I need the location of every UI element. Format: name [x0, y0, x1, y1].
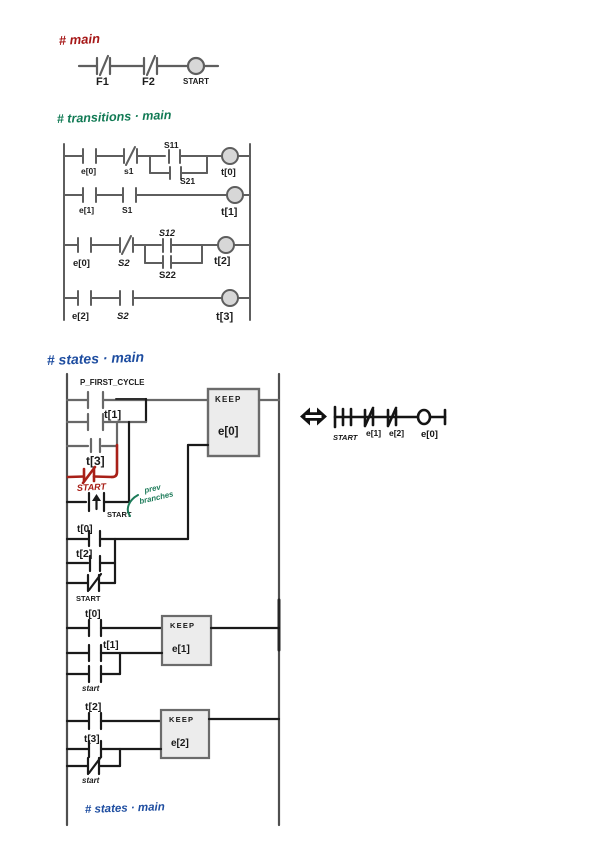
- contact e[1] inset (NC): [365, 408, 373, 426]
- svg-text:e[0]: e[0]: [218, 426, 239, 438]
- function block KEEP e[0]: [208, 389, 259, 456]
- contact START rising edge (NO with up arrow): [89, 493, 104, 511]
- svg-text:t[2]: t[2]: [85, 701, 101, 713]
- wire: branch lower run to S21: [150, 172, 170, 174]
- wire: rung2 e[1] to S1: [96, 194, 123, 196]
- wire: main rung left segment: [79, 65, 97, 67]
- wire: rung A1 to KEEP set input: [103, 399, 208, 401]
- wire: doubled ink over rung A1: [116, 398, 146, 400]
- wire: main rung right segment: [204, 65, 218, 67]
- wire: rung C1 to KEEP e[2]: [101, 720, 161, 722]
- wire: rung R1 to reset feed line: [100, 538, 188, 540]
- svg-text:e[0]: e[0]: [81, 166, 96, 176]
- wire: between F1 and F2: [110, 65, 144, 67]
- wire: branch lower run after S21: [181, 172, 207, 174]
- wire: vertical branch leg R1-R3: [114, 539, 116, 583]
- left power rail (states): [66, 374, 68, 825]
- svg-text:t[1]: t[1]: [103, 640, 119, 651]
- wire: rung1 e[0] to s1: [96, 155, 124, 157]
- wire: rung B2 from left rail: [67, 652, 88, 654]
- annotation: prev branches (green): [138, 482, 174, 506]
- contact start B3 (NO): [89, 666, 101, 682]
- wire: rung C2 to KEEP e[2] reset input: [101, 748, 161, 750]
- contact P_FIRST_CYCLE (NO): [88, 392, 103, 408]
- svg-text:e[2]: e[2]: [389, 428, 404, 438]
- contact start C3 (NC): [88, 757, 101, 774]
- contact START inset (NO): [343, 409, 351, 425]
- SECTION: transitions: [57, 108, 250, 323]
- wire: rung B3 to branch leg: [101, 673, 120, 675]
- wire: rung3 S2 to branch node: [133, 244, 161, 246]
- contact t[2] set3 (NO): [89, 713, 101, 729]
- svg-text:t[0]: t[0]: [85, 609, 101, 620]
- contact S21 (NO, bottom of parallel branch): [170, 167, 181, 179]
- wire: rung3 coil to right rail: [234, 244, 250, 246]
- contact e[2] rung4 (NO): [78, 291, 91, 305]
- node: inset right rail stub: [444, 410, 447, 424]
- coil START: [188, 58, 204, 74]
- contact e[1] rung2 (NO): [83, 188, 96, 202]
- svg-text:KEEP: KEEP: [169, 715, 194, 724]
- svg-text:t[0]: t[0]: [221, 167, 236, 178]
- wire: rung4 S2 to coil: [133, 297, 222, 299]
- wire: rung B1 from left rail: [67, 627, 88, 629]
- wire: rung3 branch down left leg: [144, 245, 146, 263]
- svg-text:START: START: [76, 594, 101, 603]
- svg-text:S2: S2: [118, 258, 130, 269]
- node: inset left rail stub: [334, 407, 337, 427]
- svg-text:START: START: [77, 481, 108, 493]
- wire: rung C3 from left rail: [67, 765, 88, 767]
- wire: rung A4 to vertical link: [104, 501, 129, 503]
- wire: rung R2 to branch leg: [100, 562, 115, 564]
- wire: rung C2 from left rail: [67, 748, 88, 750]
- wire: rung A1 from left rail: [67, 399, 88, 401]
- svg-text:t[1]: t[1]: [104, 409, 121, 421]
- svg-text:F2: F2: [142, 76, 155, 88]
- contact S11 (NO, top of parallel branch): [169, 150, 180, 163]
- svg-text:KEEP: KEEP: [170, 621, 195, 630]
- wire: rung C1 from left rail: [67, 720, 88, 722]
- svg-text:e[1]: e[1]: [366, 428, 381, 438]
- wire: rung R3 from left rail: [67, 582, 88, 584]
- right power rail: [249, 144, 251, 320]
- contact e[0] rung1 (NO): [83, 149, 96, 163]
- contact t[0] set2 (NO): [89, 620, 101, 636]
- wire: KEEP e[0] output to right rail: [259, 399, 279, 401]
- symbol: equivalence double arrow: [300, 408, 327, 426]
- right power rail (states): [278, 374, 280, 825]
- svg-text:P_FIRST_CYCLE: P_FIRST_CYCLE: [80, 378, 145, 387]
- svg-text:KEEP: KEEP: [215, 395, 242, 404]
- wire: red rung to vertical leg: [94, 475, 112, 478]
- contact START reset (NC): [88, 574, 101, 591]
- wire: rung A2 from left rail: [67, 421, 88, 423]
- svg-text:S12: S12: [159, 228, 175, 238]
- wire: rung3 branch lower run to S22: [145, 262, 163, 264]
- svg-text:# main: # main: [58, 31, 100, 48]
- wire: rung1 coil to right rail: [238, 155, 250, 157]
- wire: rung2 from left rail: [64, 194, 83, 196]
- svg-text:# transitions · main: # transitions · main: [57, 108, 172, 126]
- wire: rung B2 to KEEP e[1] reset input: [101, 652, 162, 654]
- wire: rung B1 to KEEP e[1]: [101, 627, 162, 629]
- wire: rung R2 from left rail: [67, 562, 88, 564]
- wire: rung4 from left rail: [64, 297, 78, 299]
- function block KEEP e[1]: [162, 616, 211, 665]
- wire: branch down left leg: [149, 156, 151, 173]
- svg-text:e[1]: e[1]: [172, 644, 190, 655]
- svg-text:S1: S1: [122, 205, 133, 215]
- coil t[2]: [218, 237, 234, 253]
- wire: branch up right leg: [206, 156, 208, 173]
- contact e[0] rung3 (NO): [78, 238, 91, 252]
- contact S2 rung4 (NO): [120, 291, 133, 305]
- contact S12 (NO, top of parallel branch): [163, 239, 171, 252]
- wire: inset rung: [335, 416, 445, 419]
- wire: rung3 S12 to join node: [171, 244, 218, 246]
- svg-text:e[1]: e[1]: [79, 205, 94, 215]
- wire: rung3 from left rail: [64, 244, 78, 246]
- coil t[3]: [222, 290, 238, 306]
- coil e[0] inset: [418, 410, 430, 424]
- svg-text:start: start: [82, 684, 100, 693]
- wire: rung A2 to branch leg: [103, 421, 146, 423]
- wire: rung3 e[0] to S2: [91, 244, 120, 246]
- contact S22 (NO, bottom of parallel branch): [163, 256, 171, 268]
- wire: rung2 S1 to coil: [136, 194, 227, 196]
- wire: rung R1 from left rail: [67, 538, 88, 540]
- wire: rung A4 from left rail: [67, 501, 86, 503]
- contact t[3] (NO): [91, 439, 100, 452]
- svg-text:F1: F1: [96, 76, 109, 88]
- contact S2 rung3 (NC): [120, 236, 133, 254]
- svg-text:t[0]: t[0]: [77, 524, 93, 535]
- wire: rung R3 to branch leg: [99, 582, 115, 584]
- wire: red branch vertical leg: [112, 445, 117, 477]
- wire: rung4 coil to right rail: [238, 297, 250, 299]
- contact F2 (normally closed): [144, 56, 157, 75]
- wire: rung2 coil to right rail: [243, 194, 250, 196]
- svg-text:# states · main: # states · main: [47, 349, 145, 368]
- wire: between F2 and coil START: [157, 65, 188, 67]
- wire: vertical link A2 down to START pulse rung: [128, 422, 130, 502]
- wire: branch leg joining A3 to A2: [116, 422, 118, 445]
- wire: branch leg joining A2 to A1: [145, 399, 147, 422]
- contact e[2] inset (NC): [388, 408, 396, 426]
- wire: KEEP e[1] output to right rail: [211, 627, 279, 629]
- svg-text:START: START: [183, 77, 209, 86]
- svg-text:s1: s1: [124, 166, 134, 176]
- wire: KEEP e[2] output to right rail: [209, 718, 279, 720]
- wire: KEEP e[0] reset stub: [188, 444, 208, 446]
- svg-text:S11: S11: [164, 140, 179, 150]
- contact S1 rung2 (NO): [123, 188, 136, 202]
- svg-text:t[3]: t[3]: [216, 311, 233, 323]
- wire: rung3 branch up right leg: [201, 245, 203, 263]
- left power rail: [63, 144, 65, 320]
- wire: rung3 branch lower run after S22: [171, 262, 202, 264]
- function block KEEP e[2]: [161, 710, 209, 758]
- svg-text:S22: S22: [159, 270, 176, 281]
- svg-text:# states · main: # states · main: [85, 801, 165, 816]
- contact t[3] set3 (NO): [89, 741, 101, 757]
- contact s1 rung1 (NC): [124, 147, 137, 165]
- svg-text:START: START: [333, 433, 359, 442]
- contact t[1] (NO): [88, 414, 103, 430]
- wire: rung B3 from left rail: [67, 673, 88, 675]
- wire: rung1 s1 to branch node: [137, 155, 165, 157]
- contact F1 (normally closed): [97, 56, 110, 75]
- contact t[0] (NO): [89, 531, 100, 546]
- wire: rung4 e[2] to S2: [91, 297, 120, 299]
- contact START red (NC): [83, 467, 95, 483]
- right power rail darker overlap segment: [278, 600, 281, 650]
- svg-text:e[0]: e[0]: [421, 429, 438, 440]
- SECTION: main: [58, 31, 218, 88]
- svg-text:t[1]: t[1]: [221, 206, 237, 218]
- coil t[0]: [222, 148, 238, 164]
- wire: rung C3 to branch leg: [99, 765, 120, 767]
- wire: rung A3 stub to red leg: [102, 445, 117, 447]
- wire: rung1 S11 to join node: [180, 155, 222, 157]
- wire: vertical branch leg B2-B3: [119, 653, 121, 674]
- wire: red rung from left rail: [68, 475, 84, 478]
- svg-text:S21: S21: [180, 176, 195, 186]
- annotation: green swash stroke: [128, 495, 138, 516]
- svg-text:start: start: [82, 776, 100, 785]
- wire: reset vertical feed line: [187, 445, 189, 539]
- coil t[1]: [227, 187, 243, 203]
- svg-text:S2: S2: [117, 311, 129, 322]
- svg-text:e[2]: e[2]: [171, 738, 189, 749]
- svg-text:t[2]: t[2]: [214, 255, 230, 267]
- contact t[2] (NO): [90, 556, 100, 571]
- contact t[1] set2 (NO): [89, 645, 101, 661]
- svg-text:t[3]: t[3]: [84, 734, 100, 745]
- wire: vertical branch leg C2-C3: [119, 749, 121, 766]
- svg-text:e[2]: e[2]: [72, 311, 89, 322]
- wire: rung1 from left rail: [64, 155, 83, 157]
- SECTION: states: [47, 349, 279, 825]
- SECTION: equivalence inset: [300, 407, 445, 442]
- wire: rung A3 from left rail: [67, 445, 88, 447]
- svg-text:e[0]: e[0]: [73, 258, 90, 269]
